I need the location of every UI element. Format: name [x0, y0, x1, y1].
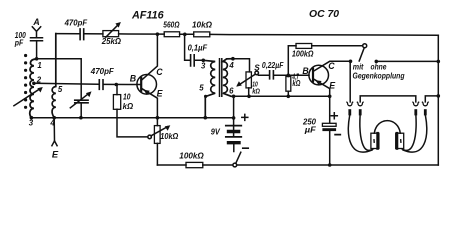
svg-text:pF: pF	[14, 39, 24, 48]
svg-text:µF: µF	[304, 125, 317, 134]
svg-text:4: 4	[228, 61, 234, 70]
svg-text:5: 5	[199, 83, 204, 92]
svg-text:E: E	[329, 80, 336, 90]
svg-text:10kΩ: 10kΩ	[192, 19, 212, 29]
svg-text:470pF: 470pF	[90, 66, 115, 76]
svg-text:0,22µF: 0,22µF	[262, 60, 284, 70]
svg-text:100kΩ: 100kΩ	[292, 48, 314, 58]
svg-text:100kΩ: 100kΩ	[179, 150, 204, 160]
svg-text:B: B	[130, 73, 137, 83]
svg-text:0,1µF: 0,1µF	[188, 42, 208, 52]
svg-text:10kΩ: 10kΩ	[160, 131, 178, 141]
svg-text:B: B	[302, 66, 309, 76]
svg-text:6: 6	[229, 86, 234, 95]
svg-text:S: S	[254, 63, 260, 72]
svg-text:25kΩ: 25kΩ	[101, 36, 121, 46]
svg-text:3: 3	[29, 119, 34, 128]
svg-text:Gegenkopplung: Gegenkopplung	[353, 71, 405, 81]
svg-text:2: 2	[36, 75, 42, 84]
svg-text:C: C	[328, 61, 335, 71]
svg-text:1: 1	[37, 61, 41, 70]
svg-text:9V: 9V	[211, 128, 221, 137]
svg-text:kΩ: kΩ	[292, 79, 300, 88]
svg-text:kΩ: kΩ	[252, 86, 260, 95]
svg-text:kΩ: kΩ	[123, 102, 134, 111]
svg-text:560Ω: 560Ω	[163, 19, 179, 29]
svg-text:OC 70: OC 70	[309, 9, 339, 20]
svg-text:E: E	[52, 149, 59, 160]
svg-text:AF116: AF116	[131, 9, 165, 21]
svg-text:C: C	[156, 67, 163, 77]
svg-text:A: A	[32, 17, 39, 27]
svg-text:3: 3	[201, 61, 206, 70]
svg-text:5: 5	[58, 85, 63, 94]
svg-text:470pF: 470pF	[64, 18, 88, 28]
svg-text:4: 4	[49, 118, 55, 127]
svg-text:E: E	[157, 89, 164, 99]
svg-text:10: 10	[123, 93, 131, 102]
